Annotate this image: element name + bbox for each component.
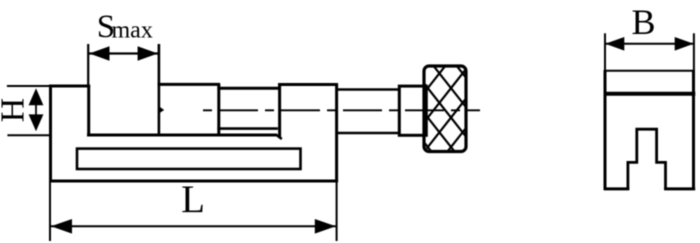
svg-text:H: H [0, 98, 32, 123]
jaw face line with break mark [159, 44, 165, 136]
dimension B [605, 33, 694, 70]
end view T-slot [628, 129, 666, 190]
label H [0, 98, 32, 123]
end bracket [278, 83, 338, 138]
dimension H [7, 86, 49, 135]
movable jaw [158, 84, 221, 136]
knurled knob [354, 66, 524, 152]
dimension L [50, 181, 337, 241]
label Smax [97, 9, 153, 45]
centerline [203, 109, 480, 111]
end view block [604, 70, 696, 190]
base slot [77, 149, 301, 169]
vise body outline [49, 85, 338, 182]
label B [631, 2, 655, 42]
dimension Smax [88, 44, 158, 85]
screw sleeve [217, 88, 281, 128]
svg-text:max: max [112, 17, 153, 43]
collar [399, 86, 426, 135]
label L [181, 178, 205, 221]
svg-text:B: B [631, 2, 655, 42]
fixed jaw [49, 86, 90, 135]
svg-text:L: L [181, 178, 205, 221]
screw shaft [338, 90, 400, 134]
